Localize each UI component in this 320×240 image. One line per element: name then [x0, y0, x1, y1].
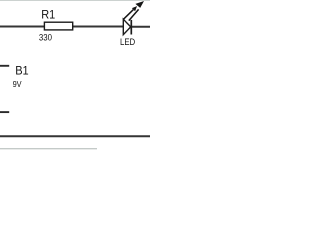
- svg-text:330: 330: [39, 33, 52, 43]
- svg-text:B1: B1: [15, 64, 29, 78]
- svg-text:R1: R1: [41, 8, 55, 22]
- svg-text:LED: LED: [120, 37, 135, 47]
- svg-text:9V: 9V: [13, 80, 23, 89]
